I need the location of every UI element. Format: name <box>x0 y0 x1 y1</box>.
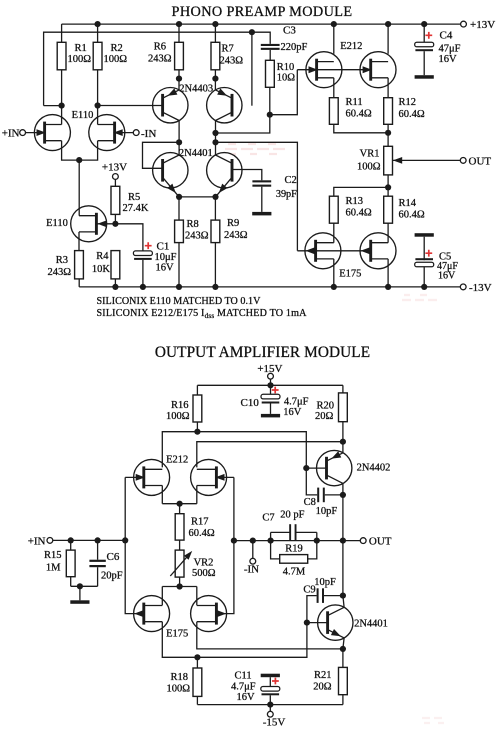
svg-text:R6: R6 <box>154 42 166 53</box>
svg-text:+15V: +15V <box>257 363 282 375</box>
wire node D (E175a source/R18/base) <box>162 622 307 658</box>
svg-text:E110: E110 <box>46 218 68 229</box>
wire R8 top lead <box>178 197 180 220</box>
svg-text:OUT: OUT <box>369 536 392 548</box>
svg-text:VR2: VR2 <box>194 558 214 569</box>
svg-text:E175: E175 <box>339 269 361 280</box>
transistor Q4 2N4401 (right) <box>207 153 242 188</box>
junction C9 / collector <box>340 593 346 599</box>
junction VR1 top <box>385 130 391 136</box>
svg-text:R16: R16 <box>171 400 189 411</box>
svg-text:R3: R3 <box>56 255 68 266</box>
wire R15/C6 ground join <box>70 577 72 587</box>
svg-text:R7: R7 <box>222 44 234 55</box>
svg-text:R18: R18 <box>170 672 188 683</box>
capacitor C1 <box>115 224 142 251</box>
svg-text:60.4Ω: 60.4Ω <box>346 109 372 120</box>
svg-text:R19: R19 <box>285 544 303 555</box>
junction Q4 emitter / R9 <box>212 194 218 200</box>
wire E110b drain <box>97 106 99 125</box>
junction Q1 collector / Q3 base-collector <box>176 139 182 145</box>
svg-text:VR1: VR1 <box>360 149 380 160</box>
svg-text:60.4Ω: 60.4Ω <box>189 528 215 539</box>
terminal -IN (output) <box>252 541 254 559</box>
junction 2N4402 base node <box>303 465 309 471</box>
junction source join / E110c <box>76 157 82 163</box>
junction node A (R1/E110a drain/feedback) <box>59 103 65 109</box>
svg-text:16V: 16V <box>156 263 175 274</box>
resistor R20 <box>339 393 348 422</box>
wire -IN gate bus (right) <box>216 476 234 478</box>
wire to E175 gates <box>216 142 298 251</box>
wire E110c gate <box>97 223 115 225</box>
wire 2N4402 collector to OUT node <box>342 483 344 540</box>
resistor R19 <box>280 555 308 564</box>
svg-text:10μF: 10μF <box>155 252 177 263</box>
svg-text:C4: C4 <box>440 30 453 42</box>
wire R9 bottom <box>214 243 216 287</box>
svg-text:R13: R13 <box>346 196 364 207</box>
wire +IN gate bus (left) <box>125 476 144 478</box>
resistor R7 <box>211 42 220 70</box>
terminal OUT (phono) <box>460 158 466 164</box>
wire R8 bottom <box>178 243 180 287</box>
svg-text:27.4K: 27.4K <box>123 203 149 214</box>
junction 2N4401 base node <box>304 620 310 626</box>
resistor R6 <box>175 42 184 70</box>
resistor R12 <box>384 98 393 125</box>
JFET U3 E175 (left) <box>305 233 341 269</box>
capacitor C7 / resistor R19 network <box>268 538 274 544</box>
JFET U11 E175 (output right) <box>191 596 227 632</box>
JFET U1 E212 (left) <box>306 52 342 88</box>
svg-text:OUTPUT AMPLIFIER MODULE: OUTPUT AMPLIFIER MODULE <box>155 344 370 361</box>
junction R6 bottom <box>176 76 182 82</box>
wire node B (E212b drain/2N4402 emitter/R20) <box>197 442 343 468</box>
wire R6 to 2N4403a emitter <box>178 70 180 90</box>
resistor R1 <box>57 42 66 70</box>
svg-text:R15: R15 <box>44 550 62 561</box>
transistor Q6 2N4401 (output) <box>318 605 353 640</box>
junction -IN stub <box>250 538 256 544</box>
svg-text:60.4Ω: 60.4Ω <box>399 109 425 120</box>
svg-text:R8: R8 <box>187 219 199 230</box>
capacitor C6 <box>97 540 99 559</box>
svg-text:39pF: 39pF <box>276 189 297 200</box>
wire -13V rail (bottom) <box>79 286 460 288</box>
wire 2N4401 base <box>307 622 328 624</box>
svg-text:2N4401: 2N4401 <box>179 148 213 159</box>
svg-text:C6: C6 <box>107 551 120 563</box>
svg-text:60.4Ω: 60.4Ω <box>346 208 372 219</box>
svg-text:C1: C1 <box>157 241 170 253</box>
svg-text:R10: R10 <box>277 62 295 73</box>
junction +15V rail / C10 <box>267 382 273 388</box>
wire E175b source lead <box>387 259 389 287</box>
wire E212b drain lead <box>387 78 389 98</box>
svg-text:4.7M: 4.7M <box>283 566 306 577</box>
svg-text:+IN: +IN <box>2 128 20 140</box>
junction C4 / +13V rail <box>421 21 427 27</box>
svg-text:R11: R11 <box>346 97 363 108</box>
wire feedback rail (second) <box>44 32 252 105</box>
terminal +13V (top right) <box>461 21 467 27</box>
wire to R10 node <box>216 115 270 133</box>
svg-text:+IN: +IN <box>28 535 46 547</box>
junction R7 bottom <box>212 76 218 82</box>
terminal -13V <box>460 284 466 290</box>
svg-text:47μF: 47μF <box>439 44 461 55</box>
junction 2N4402 collector / C8 <box>340 492 346 498</box>
wire 2N4402 base <box>306 467 326 469</box>
wire VR2 bottom to E175 drains <box>179 577 181 586</box>
JFET U8 E212 (output left) <box>134 459 170 495</box>
junction R6 / +13V rail <box>176 21 182 27</box>
wire R1 bottom to node A <box>61 70 63 106</box>
svg-text:SILICONIX E110 MATCHED TO 0.1V: SILICONIX E110 MATCHED TO 0.1V <box>97 296 262 307</box>
wire output net (feedback row) <box>234 540 360 542</box>
svg-text:R2: R2 <box>111 43 123 54</box>
svg-text:20pF: 20pF <box>101 571 123 582</box>
junction R18 / node D <box>194 654 200 660</box>
resistor R2 <box>93 42 102 70</box>
resistor R8 <box>175 220 184 243</box>
ground (input network) <box>70 600 89 604</box>
svg-text:20 pF: 20 pF <box>280 510 304 521</box>
wire E175a source lead <box>333 259 335 287</box>
svg-text:16V: 16V <box>439 54 458 65</box>
wire E110a drain <box>61 106 63 125</box>
capacitor C9 <box>307 596 317 623</box>
wire 2N4401 collector lead <box>343 596 344 608</box>
svg-text:243Ω: 243Ω <box>224 230 248 241</box>
svg-text:100Ω: 100Ω <box>357 162 381 173</box>
junction R7 / +13V rail <box>212 21 218 27</box>
wire E212a drain lead <box>333 78 335 98</box>
svg-text:500Ω: 500Ω <box>192 568 216 579</box>
wire R9 top lead <box>214 197 216 220</box>
wire R13 to E175a <box>333 223 335 243</box>
svg-text:4.7μF: 4.7μF <box>231 682 256 693</box>
resistor R16 <box>193 395 202 422</box>
transistor Q2 2N4403 (right) <box>207 88 242 123</box>
junction R4 / -13V rail <box>112 284 118 290</box>
resistor R5 <box>111 186 120 214</box>
svg-text:220pF: 220pF <box>281 42 308 53</box>
potentiometer VR1 <box>384 146 393 175</box>
wire Q3 base hook <box>143 142 180 168</box>
JFET U10 E175 (output left) <box>134 596 170 632</box>
terminal -15V <box>269 705 271 712</box>
resistor R9 <box>211 220 220 243</box>
ground (C2) <box>252 212 271 216</box>
svg-text:E212: E212 <box>166 455 188 466</box>
resistor R14 <box>384 196 393 223</box>
terminal +13V (R5 top) <box>113 174 119 180</box>
svg-text:C7: C7 <box>262 513 274 524</box>
svg-text:243Ω: 243Ω <box>47 267 71 278</box>
svg-text:20Ω: 20Ω <box>315 411 334 422</box>
junction C6 / +IN <box>95 537 101 543</box>
capacitor C4 <box>415 42 434 47</box>
wire R14 to E175b <box>387 223 389 243</box>
wire node A (R16/E212 drains/2N4402 base) <box>162 432 306 468</box>
junction E175b / -13V rail <box>385 284 391 290</box>
junction E212a / +13V rail <box>331 21 337 27</box>
svg-text:R20: R20 <box>317 401 335 412</box>
wire 2N4403b base riser <box>251 32 253 106</box>
ground (C10) <box>261 414 280 418</box>
svg-text:R14: R14 <box>399 198 417 209</box>
capacitor C2 <box>252 180 271 182</box>
JFET U7 E110 (tail current source) <box>71 206 107 242</box>
junction VR2 / E175 drains <box>177 583 183 589</box>
terminal OUT (output) <box>360 538 366 544</box>
junction R10 / E212 gate node <box>267 112 273 118</box>
svg-text:16V: 16V <box>438 271 456 282</box>
junction node B (R2/E110b drain/2N4403a base) <box>95 102 101 108</box>
junction C5 / -13V rail <box>421 284 427 290</box>
potentiometer VR2 <box>179 540 181 550</box>
transistor Q5 2N4402 <box>317 450 352 485</box>
JFET U2 E212 (right) <box>360 52 396 88</box>
terminal +15V <box>268 373 274 379</box>
junction rail2 / C3 / base <box>249 29 255 35</box>
junction 2N4401 emitter / R21 <box>340 646 346 652</box>
svg-text:10Ω: 10Ω <box>277 73 296 84</box>
resistor R15 <box>70 540 72 550</box>
svg-text:243Ω: 243Ω <box>148 54 172 65</box>
junction E212b / +13V rail <box>385 21 391 27</box>
svg-text:R1: R1 <box>75 43 87 54</box>
svg-text:2N4402: 2N4402 <box>357 463 391 474</box>
wire +15V rail <box>197 384 343 386</box>
wire E175 drains join <box>162 586 197 588</box>
svg-text:1M: 1M <box>46 563 61 574</box>
wire emitter tie <box>179 196 215 198</box>
svg-text:-15V: -15V <box>263 716 286 728</box>
svg-text:R5: R5 <box>128 192 140 203</box>
svg-text:2N4401: 2N4401 <box>354 619 388 630</box>
wire node C (E175b source to emitter) <box>197 622 343 649</box>
wire R7 to 2N4403b emitter <box>214 70 216 90</box>
junction R4/R5/E110c gate <box>112 221 118 227</box>
JFET E175 pair gate line (phono) <box>297 250 371 252</box>
junction R15 / +IN <box>68 537 74 543</box>
svg-text:SILICONIX E212/E175 Idss MATCH: SILICONIX E212/E175 Idss MATCHED TO 1mA <box>97 308 308 320</box>
junction E212 sources / R17 <box>177 501 183 507</box>
svg-text:C3: C3 <box>283 25 296 37</box>
wire tail drop <box>78 160 80 216</box>
svg-text:+13V: +13V <box>102 161 127 173</box>
wire -15V rail <box>196 696 198 704</box>
junction OUT column / feedback row <box>340 538 346 544</box>
junction C1 / -13V rail <box>140 284 146 290</box>
svg-text:2N4403: 2N4403 <box>179 83 213 94</box>
wire Q2 collector column <box>215 121 217 156</box>
junction R9 / -13V rail <box>212 284 218 290</box>
capacitor C7 <box>289 524 291 540</box>
svg-text:-IN: -IN <box>141 128 156 140</box>
resistor R3 <box>75 251 84 279</box>
svg-text:+13V: +13V <box>470 19 495 31</box>
svg-text:E212: E212 <box>340 41 362 52</box>
junction E175a / -13V rail <box>331 284 337 290</box>
JFET U6 E110 (input right) <box>89 115 125 151</box>
junction R20 / 2N4402 emitter <box>340 439 346 445</box>
capacitor C3 <box>252 32 270 44</box>
junction R16 / node A <box>194 429 200 435</box>
svg-text:R4: R4 <box>96 251 109 262</box>
junction R8 / -13V rail <box>176 284 182 290</box>
terminal -IN (phono) <box>133 130 139 136</box>
wire OUT column to 2N4401 collector <box>342 541 344 596</box>
JFET U5 E110 (input left) <box>34 115 70 151</box>
JFET E212 pair gate line (phono) <box>297 69 371 71</box>
wire R10 bottom <box>269 87 271 114</box>
svg-text:10K: 10K <box>92 264 111 275</box>
wire 2N4401 emitter lead <box>343 638 344 649</box>
wire E212 sources join <box>161 486 163 504</box>
junction Q3 emitter / R8 <box>176 194 182 200</box>
svg-text:20Ω: 20Ω <box>313 682 332 693</box>
svg-text:16V: 16V <box>283 407 302 418</box>
svg-text:R17: R17 <box>191 517 209 528</box>
svg-text:100Ω: 100Ω <box>104 54 128 65</box>
svg-text:243Ω: 243Ω <box>220 56 244 67</box>
resistor R11 <box>329 98 338 125</box>
transistor Q1 2N4403 (left) <box>153 88 188 123</box>
resistor R17 <box>179 504 181 514</box>
wire VR1 wiper to OUT <box>393 159 460 161</box>
svg-text:10pF: 10pF <box>316 506 338 517</box>
svg-text:C2: C2 <box>285 175 297 186</box>
junction +IN / gate bus <box>122 537 128 543</box>
svg-text:E110: E110 <box>72 110 94 121</box>
wire R13 top hook <box>334 187 388 196</box>
svg-text:4.7μF: 4.7μF <box>284 397 309 408</box>
resistor R10 <box>266 60 275 87</box>
terminal +IN (phono) <box>20 130 26 136</box>
ground (C4) <box>415 75 434 79</box>
svg-text:100Ω: 100Ω <box>166 411 190 422</box>
svg-text:R21: R21 <box>314 670 332 681</box>
capacitor C8 <box>317 488 319 503</box>
svg-text:C8: C8 <box>304 497 316 508</box>
svg-text:R12: R12 <box>399 97 417 108</box>
wire VR1 bottom <box>387 175 389 196</box>
resistor R21 <box>342 649 344 668</box>
wire E212 gate drop <box>270 70 298 115</box>
svg-text:C10: C10 <box>241 397 260 409</box>
resistor R13 <box>329 196 338 223</box>
capacitor C11 <box>261 674 280 678</box>
svg-text:-13V: -13V <box>469 282 492 294</box>
junction R2 / +13V rail <box>95 21 101 27</box>
junction ground join <box>77 583 83 589</box>
junction C11 / -15V rail <box>267 702 273 708</box>
wire input pair source join <box>62 141 98 160</box>
transistor Q3 2N4401 (left) <box>153 153 188 188</box>
wire R5 bottom <box>114 214 116 223</box>
wire R4 bottom <box>114 279 116 287</box>
wire R2 bottom to node B <box>97 70 99 106</box>
junction VR1 bottom / R13 / R14 <box>385 184 391 190</box>
wire Q1 collector to mirror node <box>178 121 180 156</box>
JFET U9 E212 (output right) <box>191 459 227 495</box>
svg-text:R9: R9 <box>227 218 239 229</box>
svg-text:OUT: OUT <box>469 155 492 167</box>
svg-text:16V: 16V <box>237 692 256 703</box>
svg-text:10pF: 10pF <box>314 577 336 588</box>
svg-text:100Ω: 100Ω <box>166 684 190 695</box>
wire +13V rail (top) <box>62 23 461 25</box>
capacitor C5 <box>415 233 434 237</box>
resistor R4 <box>111 251 120 279</box>
resistor R18 <box>196 657 198 668</box>
terminal +IN (output) <box>47 538 53 544</box>
wire 2N4403a base <box>98 105 163 107</box>
svg-text:PHONO PREAMP MODULE: PHONO PREAMP MODULE <box>172 4 353 20</box>
wire R11/R12 to VR1 <box>334 124 388 133</box>
svg-text:C11: C11 <box>235 671 252 682</box>
svg-text:E175: E175 <box>166 629 188 640</box>
capacitor C10 <box>270 385 272 394</box>
wire Q4 base to C2 <box>232 170 262 181</box>
junction cascode output lower <box>212 139 218 145</box>
svg-text:243Ω: 243Ω <box>185 231 209 242</box>
decor <box>225 144 444 723</box>
wire E110c source to R3 <box>78 232 80 251</box>
svg-text:60.4Ω: 60.4Ω <box>399 210 425 221</box>
svg-text:100Ω: 100Ω <box>68 54 92 65</box>
JFET U4 E175 (right) <box>360 233 396 269</box>
wire C8 left leg <box>306 468 317 495</box>
svg-text:-IN: -IN <box>244 563 259 575</box>
junction cascode output upper <box>212 130 218 136</box>
junction gate bus / feedback row <box>231 538 237 544</box>
